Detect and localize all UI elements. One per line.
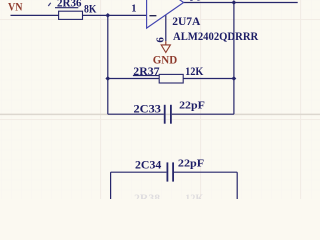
svg-text:12K: 12K (185, 64, 204, 78)
svg-text:2C33: 2C33 (134, 102, 162, 116)
svg-text:2C34: 2C34 (135, 158, 161, 172)
svg-text:12K: 12K (185, 191, 204, 199)
svg-text:GND: GND (153, 53, 178, 67)
svg-text:1: 1 (131, 4, 136, 15)
svg-text:2R36: 2R36 (57, 0, 82, 9)
svg-text:2U7A: 2U7A (172, 14, 201, 28)
svg-text:22pF: 22pF (178, 157, 205, 169)
svg-text:2R38: 2R38 (134, 191, 160, 199)
svg-text:VN: VN (8, 0, 23, 14)
svg-text:22pF: 22pF (179, 100, 205, 112)
svg-text:8K: 8K (84, 1, 97, 15)
svg-text:6: 6 (154, 37, 166, 43)
svg-text:ALM2402QDRRR: ALM2402QDRRR (173, 29, 258, 43)
